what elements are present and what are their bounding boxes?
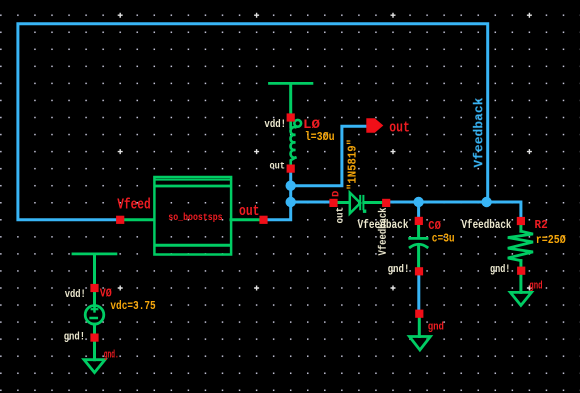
svg-text:gnd: gnd xyxy=(428,322,444,334)
svg-text:vdd!: vdd! xyxy=(264,119,286,131)
svg-text:vdc=3.75: vdc=3.75 xyxy=(110,300,155,313)
svg-text:Vfeedback: Vfeedback xyxy=(472,97,486,168)
svg-text:out: out xyxy=(335,207,347,224)
svg-text:c=3u: c=3u xyxy=(432,233,455,246)
svg-text:gnd!: gnd! xyxy=(490,264,510,276)
svg-text:gnd!: gnd! xyxy=(388,264,410,276)
svg-text:LØ: LØ xyxy=(303,118,321,132)
svg-text:l=3Øu: l=3Øu xyxy=(305,131,335,144)
svg-text:so_boostsps: so_boostsps xyxy=(168,212,222,224)
svg-text:D: D xyxy=(330,191,342,197)
svg-text:Vfeedback: Vfeedback xyxy=(378,207,390,255)
svg-text:R2: R2 xyxy=(535,219,548,232)
svg-text:out: out xyxy=(239,203,260,220)
svg-text:VØ: VØ xyxy=(100,287,112,301)
svg-text:out: out xyxy=(389,120,410,137)
svg-text:gnd.: gnd. xyxy=(104,350,119,362)
svg-text:Vfeed: Vfeed xyxy=(117,196,151,213)
svg-text:out: out xyxy=(270,160,286,172)
svg-text:gnd: gnd xyxy=(529,280,542,292)
svg-text:"1N5819": "1N5819" xyxy=(347,139,360,190)
svg-text:CØ: CØ xyxy=(428,219,441,233)
svg-text:r=25Ø: r=25Ø xyxy=(536,234,566,247)
svg-text:gnd!: gnd! xyxy=(64,331,85,343)
svg-text:vdd!: vdd! xyxy=(65,289,86,301)
svg-text:Vfeedback: Vfeedback xyxy=(462,219,512,232)
